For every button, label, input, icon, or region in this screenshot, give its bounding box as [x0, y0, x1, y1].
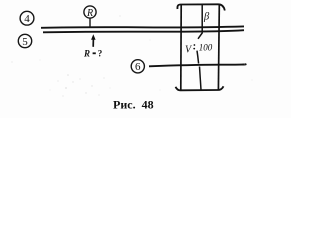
svg-text:R: R [83, 49, 90, 59]
arrow pointing to R location [91, 34, 96, 47]
pointer (middle vertical line, colon dots near scale text) [194, 44, 196, 46]
wire (single lead from node 6) [149, 64, 246, 66]
node 5 (terminal circle) [18, 34, 31, 48]
svg-text:5: 5 [22, 36, 28, 48]
voltmeter box left vertical side [180, 5, 182, 90]
svg-text:6: 6 [135, 61, 141, 73]
svg-text:β: β [203, 12, 210, 23]
voltmeter box bottom bar with curled ends [176, 86, 224, 90]
svg-text:R: R [86, 8, 93, 19]
pointer (middle vertical line, lower-mid segment) [197, 51, 199, 64]
svg-text:V: V [185, 44, 193, 55]
voltmeter box top bar with curled ends [177, 4, 224, 10]
pointer (middle vertical line, bottom segment) [200, 67, 202, 91]
node 6 (terminal circle) [131, 60, 144, 73]
resistor R (circle element on the line) [84, 6, 96, 19]
svg-text:4: 4 [24, 13, 30, 25]
wire (lower line of double lead from node 5) [43, 30, 244, 32]
wire (stub from R to the line) [89, 18, 91, 27]
node 4 (terminal circle) [20, 11, 34, 25]
wire (upper line of double lead from node 4) [41, 26, 244, 27]
scan speckles (decorative omitted from labeling) [11, 15, 252, 96]
pointer (middle vertical line, upper segment) [198, 5, 202, 39]
label R=? [83, 49, 102, 59]
svg-text:?: ? [98, 49, 103, 59]
svg-text:Рис. 48: Рис. 48 [113, 97, 154, 111]
voltmeter box right vertical side [217, 5, 220, 90]
svg-text:100: 100 [199, 42, 213, 52]
